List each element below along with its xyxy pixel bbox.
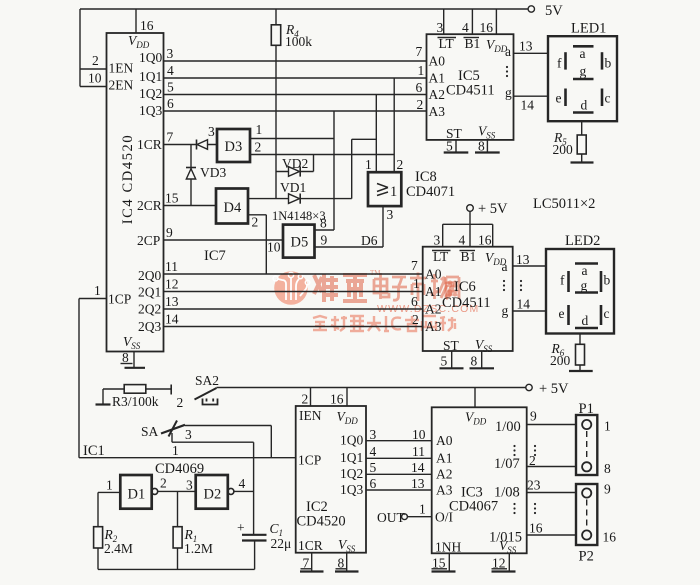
- resistor R2: [94, 492, 133, 569]
- svg-text:6: 6: [416, 80, 423, 95]
- wire IC5 a pin13 to LED1: [514, 52, 549, 54]
- svg-text:2Q1: 2Q1: [138, 285, 161, 300]
- svg-text:1/00: 1/00: [495, 419, 521, 435]
- IC5 CD4511: [427, 34, 514, 141]
- svg-text:1EN: 1EN: [109, 61, 134, 76]
- svg-text:16: 16: [529, 521, 543, 536]
- svg-text:D2: D2: [204, 487, 222, 503]
- wire 1CR pin7: [164, 144, 218, 146]
- ground IC6 pin8: [470, 351, 495, 369]
- svg-text:CD4067: CD4067: [449, 499, 498, 515]
- wire D4 pin2 down: [248, 215, 266, 274]
- svg-text:5: 5: [167, 80, 174, 95]
- wire D1 input: [98, 491, 120, 493]
- svg-text:8: 8: [604, 461, 611, 476]
- wire D2 output: [234, 490, 254, 492]
- svg-text:2: 2: [252, 215, 259, 230]
- svg-text:SA2: SA2: [195, 373, 219, 388]
- svg-text:7: 7: [167, 130, 174, 145]
- svg-text:D1: D1: [128, 487, 146, 503]
- diode VD3: [186, 145, 226, 206]
- svg-text:13: 13: [516, 252, 530, 267]
- svg-text:3: 3: [208, 124, 215, 139]
- wire IC8 pin2 vertical: [393, 78, 395, 172]
- svg-text:A0: A0: [425, 267, 442, 282]
- ground IC5 pin8: [475, 139, 500, 154]
- wire pin16 VDD stem: [135, 9, 137, 33]
- wire 1Q3 to IC5 A3: [164, 110, 427, 112]
- svg-text:16: 16: [140, 18, 154, 33]
- svg-text:LED1: LED1: [571, 21, 606, 37]
- svg-text:1NH: 1NH: [435, 540, 461, 555]
- wire 2Q0 to IC6 A0: [164, 273, 423, 275]
- wire D5 pin8: [315, 111, 335, 230]
- svg-text:4: 4: [167, 63, 174, 78]
- capacitor C1: [237, 520, 291, 569]
- ground IC4 pin8: [121, 350, 146, 368]
- gate D5: [283, 225, 315, 258]
- ground IC5 pin5: [444, 139, 469, 154]
- svg-text:A2: A2: [436, 467, 453, 482]
- wire SA pole to oscillator output: [172, 433, 254, 535]
- node dots between IC6 and LED2: [520, 280, 522, 282]
- svg-text:A1: A1: [429, 71, 446, 86]
- svg-text:IC6: IC6: [454, 279, 476, 295]
- wire 1CP pin1 left: [79, 298, 107, 300]
- svg-text:P2: P2: [579, 549, 594, 565]
- wire IC3 1/07 to P1: [527, 466, 576, 468]
- wire IC2 pin2 stem: [310, 388, 312, 407]
- svg-text:8: 8: [471, 354, 478, 369]
- svg-text:1: 1: [419, 502, 426, 517]
- svg-text:14: 14: [165, 312, 179, 327]
- svg-text:A2: A2: [429, 87, 446, 102]
- wire IC3 1/00 to P1: [527, 424, 576, 426]
- svg-text:A3: A3: [436, 483, 453, 498]
- svg-text:7: 7: [416, 44, 423, 59]
- svg-text:5V: 5V: [545, 3, 563, 19]
- wire 1Q2 to IC5 A2: [164, 94, 427, 96]
- svg-text:11: 11: [412, 444, 425, 459]
- svg-text:D3: D3: [225, 139, 243, 155]
- ground IC3 pin12: [492, 553, 516, 571]
- svg-text:VD1: VD1: [280, 180, 306, 195]
- svg-text:3: 3: [387, 207, 394, 222]
- svg-text:A2: A2: [425, 302, 442, 317]
- gate D4: [216, 189, 248, 224]
- wire 1Q0 to IC5 A0: [164, 60, 427, 62]
- svg-text:a: a: [502, 259, 508, 274]
- svg-text:c: c: [605, 91, 611, 106]
- wire D3 pin2: [250, 154, 394, 156]
- svg-text:2.4M: 2.4M: [104, 541, 133, 556]
- svg-text:3: 3: [437, 20, 444, 35]
- svg-text:1: 1: [365, 157, 372, 172]
- svg-text:6: 6: [411, 294, 418, 309]
- svg-text:d: d: [581, 98, 588, 113]
- wire SA throw to 1CP rail: [185, 426, 271, 458]
- svg-text:ST: ST: [443, 338, 460, 353]
- svg-text:10: 10: [88, 71, 102, 86]
- svg-text:5: 5: [370, 460, 377, 475]
- svg-text:2CP: 2CP: [137, 233, 160, 248]
- svg-text:16: 16: [330, 392, 344, 407]
- svg-text:2: 2: [92, 53, 99, 68]
- svg-text:1: 1: [413, 276, 420, 291]
- wire 2Q3 to IC6 A3: [164, 326, 423, 328]
- svg-text:+ 5V: + 5V: [478, 201, 508, 217]
- svg-text:a: a: [505, 44, 511, 59]
- wire IC5 pin4 stem: [471, 9, 473, 34]
- wire 1CP net vertical and rail: [79, 299, 296, 458]
- svg-text:1Q3: 1Q3: [340, 482, 363, 497]
- svg-text:1.2M: 1.2M: [184, 541, 213, 556]
- svg-text:1CR: 1CR: [298, 538, 323, 553]
- wire IC2 pin16 stem: [346, 388, 348, 407]
- svg-text:10: 10: [412, 427, 426, 442]
- svg-text:100k: 100k: [285, 34, 312, 49]
- svg-text:CD4071: CD4071: [406, 184, 455, 200]
- svg-text:16: 16: [603, 530, 617, 545]
- svg-text:A1: A1: [425, 284, 442, 299]
- wire IC6 g pin14 to LED2: [513, 310, 546, 312]
- wire D1 out to D2 in: [158, 490, 196, 492]
- svg-text:1/08: 1/08: [494, 485, 520, 501]
- svg-text:e: e: [556, 91, 562, 106]
- svg-text:9: 9: [530, 409, 537, 424]
- svg-text:g: g: [502, 303, 509, 318]
- svg-text:2: 2: [302, 392, 309, 407]
- svg-text:8: 8: [122, 350, 129, 365]
- svg-text:8: 8: [478, 139, 485, 154]
- svg-text:e: e: [559, 306, 565, 321]
- wire IC5 pin16 stem: [495, 9, 497, 34]
- svg-text:A3: A3: [429, 104, 446, 119]
- node dots between IC3 and P connectors: [534, 445, 536, 447]
- svg-text:2: 2: [412, 312, 419, 327]
- svg-text:B1: B1: [465, 36, 481, 51]
- svg-text:LC5011×2: LC5011×2: [533, 196, 595, 212]
- IC2 CD4520: [296, 406, 366, 554]
- svg-text:6: 6: [370, 476, 377, 491]
- svg-text:A1: A1: [436, 451, 453, 466]
- wire IC6 supply bracket: [443, 224, 493, 246]
- diode VD2: [276, 155, 314, 177]
- svg-text:LT: LT: [439, 36, 455, 51]
- svg-text:1: 1: [390, 184, 397, 200]
- svg-text:2: 2: [417, 97, 424, 112]
- LED1 display: [548, 21, 617, 122]
- svg-text:3: 3: [186, 478, 193, 493]
- op-amp gate IC8 CD4071: [365, 157, 455, 206]
- svg-text:2: 2: [255, 140, 262, 155]
- IC6 CD4511: [423, 247, 513, 354]
- svg-text:2Q2: 2Q2: [138, 302, 161, 317]
- svg-text:IC4 CD4520: IC4 CD4520: [120, 134, 136, 225]
- svg-text:16: 16: [478, 233, 492, 248]
- svg-text:12: 12: [165, 277, 179, 292]
- svg-text:SA: SA: [141, 424, 159, 439]
- svg-text:CD4511: CD4511: [442, 295, 491, 311]
- svg-text:4: 4: [462, 20, 469, 35]
- wire IC3 1/08 to P2: [527, 492, 576, 494]
- svg-text:A0: A0: [436, 433, 453, 448]
- watermark title 维库: [314, 273, 459, 303]
- LED2 display: [546, 233, 614, 334]
- svg-text:1N4148×3: 1N4148×3: [272, 209, 326, 223]
- svg-text:IEN: IEN: [299, 408, 322, 423]
- watermark logo circle: [273, 271, 310, 305]
- ground R3: [96, 389, 111, 405]
- svg-text:2: 2: [529, 453, 536, 468]
- switch SA2: [171, 373, 219, 410]
- wire oscillator bottom: [98, 568, 255, 570]
- wire 2Q2 to IC6 A2: [164, 308, 423, 310]
- svg-text:g: g: [580, 64, 587, 79]
- wire IC2 1Q1 to IC3 A1: [366, 457, 432, 459]
- svg-text:g: g: [581, 278, 588, 293]
- svg-text:a: a: [582, 263, 588, 278]
- svg-text:9: 9: [321, 233, 328, 248]
- +5V bottom rail: [217, 381, 570, 397]
- svg-text:2CR: 2CR: [137, 198, 162, 213]
- resistor R3: [103, 385, 171, 409]
- svg-text:3: 3: [185, 427, 192, 442]
- svg-text:3: 3: [434, 233, 441, 248]
- wire IC5 pin3 stem: [443, 9, 445, 34]
- wire IC5 g pin14 to LED1: [514, 95, 549, 97]
- resistor R5: [553, 121, 594, 162]
- svg-text:a: a: [580, 46, 586, 61]
- svg-text:1CR: 1CR: [137, 137, 162, 152]
- node OUT terminal: [377, 502, 432, 526]
- wire D4 output to VD1: [248, 198, 289, 200]
- svg-text:13: 13: [519, 39, 533, 54]
- wire IC8 pin1 vertical: [375, 95, 377, 173]
- svg-text:D5: D5: [291, 235, 309, 251]
- svg-text:1/07: 1/07: [494, 456, 520, 472]
- resistor R6: [550, 334, 593, 372]
- resistor R1: [173, 491, 213, 569]
- diode at D3 input: [197, 140, 208, 150]
- svg-text:R3/100k: R3/100k: [112, 394, 159, 409]
- svg-text:LT: LT: [433, 249, 449, 264]
- svg-text:3: 3: [370, 427, 377, 442]
- svg-text:c: c: [604, 306, 610, 321]
- inverter D2: [196, 475, 246, 509]
- wire left enable bracket: [80, 9, 107, 87]
- svg-text:VD2: VD2: [282, 156, 308, 171]
- svg-text:TM: TM: [370, 269, 381, 277]
- ground IC3 pin15: [432, 553, 456, 571]
- svg-text:200: 200: [553, 142, 574, 157]
- svg-text:4: 4: [239, 476, 246, 491]
- +5V mid terminal: [467, 201, 508, 224]
- ground IC2 pin8: [335, 553, 359, 572]
- svg-text:1Q2: 1Q2: [139, 86, 162, 101]
- inverter D1: [106, 475, 167, 509]
- wire 2CP pin9 to D5 pin10: [164, 239, 284, 241]
- svg-text:D4: D4: [224, 200, 242, 216]
- wire IC2 1Q0 to IC3 A0: [366, 440, 432, 442]
- svg-text:1Q1: 1Q1: [340, 450, 363, 465]
- svg-text:LED2: LED2: [565, 233, 600, 249]
- svg-text:1: 1: [172, 443, 179, 458]
- svg-text:CD4511: CD4511: [446, 83, 495, 99]
- svg-text:+ 5V: + 5V: [539, 381, 569, 397]
- svg-text:2: 2: [160, 476, 167, 491]
- IC3 CD4067: [432, 407, 527, 555]
- svg-text:1: 1: [256, 122, 263, 137]
- svg-text:9: 9: [604, 482, 611, 497]
- svg-text:5: 5: [441, 354, 448, 369]
- svg-text:1: 1: [604, 419, 611, 434]
- svg-text:6: 6: [167, 96, 174, 111]
- wire 2Q1 to IC6 A1: [164, 291, 423, 293]
- svg-text:13: 13: [165, 294, 179, 309]
- ground IC6 pin5: [440, 351, 464, 369]
- svg-text:2Q0: 2Q0: [138, 268, 161, 283]
- switch SA: [141, 421, 192, 459]
- +5V top rail: [80, 3, 563, 19]
- wire IC2 1Q2 to IC3 A2: [366, 473, 432, 475]
- svg-text:1CP: 1CP: [298, 453, 321, 468]
- svg-text:b: b: [604, 273, 611, 288]
- connector P2: [576, 482, 616, 565]
- svg-text:1: 1: [106, 478, 113, 493]
- svg-text:1: 1: [94, 283, 101, 298]
- svg-text:1CP: 1CP: [108, 292, 131, 307]
- svg-text:IC8: IC8: [415, 169, 437, 185]
- svg-text:7: 7: [411, 258, 418, 273]
- svg-text:14: 14: [521, 98, 535, 113]
- svg-text:1Q0: 1Q0: [340, 433, 363, 448]
- svg-text:f: f: [557, 56, 562, 71]
- svg-text:g: g: [505, 85, 512, 100]
- svg-text:IC7: IC7: [204, 248, 226, 264]
- wire IC3 1/015 to P2: [527, 534, 576, 536]
- svg-text:1Q1: 1Q1: [139, 69, 162, 84]
- wire IC2 1Q3 to IC3 A3: [366, 489, 432, 491]
- svg-text:+: +: [237, 520, 245, 535]
- watermark slogan 全球最大IC采购网站: [313, 316, 456, 331]
- svg-text:VD3: VD3: [200, 165, 226, 180]
- svg-text:A0: A0: [429, 54, 446, 69]
- wire hook VD1 to IC8 pin1: [352, 139, 377, 198]
- svg-text:4: 4: [459, 233, 466, 248]
- svg-text:10: 10: [267, 240, 281, 255]
- svg-text:14: 14: [411, 460, 425, 475]
- svg-text:14: 14: [517, 297, 531, 312]
- svg-text:8: 8: [320, 216, 327, 231]
- svg-text:5: 5: [446, 139, 453, 154]
- svg-text:2: 2: [397, 157, 404, 172]
- svg-text:b: b: [605, 56, 612, 71]
- wire IC3 VDD stem: [474, 388, 476, 408]
- svg-text:22μ: 22μ: [271, 536, 292, 551]
- svg-text:200: 200: [550, 353, 571, 368]
- wire 1Q1 to IC5 A1: [164, 77, 427, 79]
- svg-text:1Q3: 1Q3: [139, 103, 162, 118]
- connector P1: [576, 401, 611, 476]
- diode VD1: [280, 180, 352, 204]
- wire IC6 a pin13 to LED2: [513, 265, 546, 267]
- svg-text:15: 15: [165, 191, 179, 206]
- wire 2CR pin15: [164, 205, 217, 207]
- svg-text:11: 11: [165, 259, 178, 274]
- ground IC2 pin7: [300, 553, 324, 572]
- svg-text:d: d: [582, 313, 589, 328]
- svg-text:16: 16: [480, 20, 494, 35]
- svg-text:2EN: 2EN: [109, 78, 134, 93]
- svg-text:IC1: IC1: [83, 443, 105, 459]
- svg-text:A3: A3: [425, 319, 442, 334]
- svg-text:23: 23: [527, 478, 541, 493]
- wire D3 pin1: [250, 138, 334, 140]
- svg-text:2: 2: [177, 395, 184, 410]
- svg-text:f: f: [560, 273, 565, 288]
- svg-text:4: 4: [370, 444, 377, 459]
- svg-text:1: 1: [418, 63, 425, 78]
- svg-text:B1: B1: [461, 249, 477, 264]
- svg-text:13: 13: [411, 476, 425, 491]
- resistor R4: [271, 9, 312, 199]
- svg-text:CD4520: CD4520: [297, 514, 346, 530]
- IC4 CD4520: [107, 33, 164, 352]
- svg-text:D6: D6: [361, 233, 378, 248]
- wire D5 pin9 to IC8 pin3: [315, 206, 384, 247]
- gate D3: [208, 124, 250, 162]
- svg-text:1Q0: 1Q0: [139, 50, 162, 65]
- svg-text:2Q3: 2Q3: [138, 319, 161, 334]
- svg-text:9: 9: [166, 225, 173, 240]
- svg-text:1Q2: 1Q2: [340, 466, 363, 481]
- svg-text:3: 3: [167, 46, 174, 61]
